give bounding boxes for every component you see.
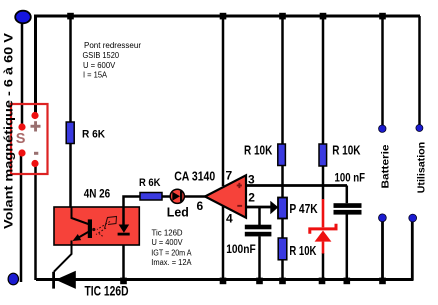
wire Batterie top (381, 16, 384, 128)
wire flywheel left terminal to ground node (20, 153, 23, 282)
optocoupler LED (118, 207, 130, 236)
wire capacitor C2 column (346, 186, 349, 281)
svg-text:Pont redresseur: Pont redresseur (84, 41, 141, 50)
svg-text:Batterie: Batterie (380, 144, 392, 188)
wire op-amp pin7 column (222, 16, 225, 186)
wire R6K column lower to optocoupler (69, 144, 72, 208)
resistor R 10K divider bottom (278, 238, 287, 260)
terminal Batterie top (379, 125, 386, 132)
wire op-amp pin4 column (222, 205, 225, 280)
wire Batterie bottom (381, 218, 384, 280)
svg-text:6: 6 (197, 199, 204, 213)
svg-text:TIC 126D: TIC 126D (85, 284, 129, 299)
potentiometer P 47K wiper arrow (270, 201, 278, 215)
zener diode wire red upper (322, 199, 325, 227)
terminal Utilisation bottom (409, 214, 417, 222)
zener diode (310, 224, 336, 242)
wire LED to op-amp pin6 (185, 195, 206, 198)
wire pin2 row (246, 206, 271, 209)
wire generator right terminal down (34, 163, 37, 280)
svg-text:U = 400V: U = 400V (152, 238, 184, 247)
label R 10K right (332, 144, 360, 158)
junction top rail x282 (279, 13, 286, 20)
zener diode wire red lower (322, 242, 325, 254)
thyristor TIC126D gate wire (54, 241, 72, 272)
wire Utilisation bottom (411, 218, 414, 280)
svg-text:4N 26: 4N 26 (84, 186, 111, 200)
svg-text:S: S (16, 131, 26, 147)
optocoupler 4N26 box (54, 207, 139, 245)
label 100 nF (335, 173, 366, 185)
svg-text:U = 600V: U = 600V (83, 61, 116, 70)
generator labels S + - (16, 121, 41, 155)
wire R6K column upper (69, 16, 72, 122)
wire flywheel left terminal from node (21, 22, 24, 127)
wire capacitor C1 drop (258, 207, 261, 280)
svg-text:100nF: 100nF (226, 244, 256, 256)
label 100nF (226, 244, 256, 256)
wire LED column into optocoupler (124, 197, 141, 280)
text Tic 126D spec block (151, 228, 192, 267)
op-amp U1 CA3140 (205, 175, 246, 217)
label CA 3140 (174, 170, 215, 184)
wire bottom rail (36, 278, 414, 281)
label Utilisation (416, 142, 428, 194)
label Led (167, 205, 189, 219)
pin 6 (197, 199, 204, 213)
svg-text:P 47K: P 47K (289, 202, 317, 216)
optocoupler light arrows (92, 217, 116, 237)
label R 10K bottom (289, 244, 316, 258)
svg-text:4: 4 (226, 211, 233, 225)
junction bottom rail x123 (120, 278, 127, 285)
capacitor C2 100nF (334, 203, 362, 214)
label R 6K horizontal (139, 177, 161, 189)
generator terminal dots (18, 112, 38, 167)
node ground (blue dot bottom-left) (8, 273, 18, 285)
text Pont redresseur block (83, 41, 142, 80)
svg-text:R 6K: R 6K (139, 177, 161, 189)
label Batterie (380, 144, 392, 188)
pin 2 (248, 191, 255, 205)
node phase output (blue ellipse top-left) (15, 11, 31, 24)
svg-text:Led: Led (167, 205, 189, 219)
junction bottom rail x322 (319, 278, 326, 285)
wire right edge (Utilisation top) (418, 16, 421, 127)
svg-text:R 10K: R 10K (332, 144, 360, 158)
svg-text:I = 15A: I = 15A (83, 70, 108, 79)
svg-text:GSIB 1520: GSIB 1520 (83, 51, 120, 60)
svg-text:Volant magnétique - 6 à 60 V: Volant magnétique - 6 à 60 V (2, 33, 16, 229)
optocoupler phototransistor (72, 207, 93, 241)
junction top rail x323 (320, 13, 327, 20)
svg-text:Tic 126D: Tic 126D (152, 228, 183, 237)
junction top rail x382 (379, 13, 386, 20)
svg-text:2: 2 (248, 191, 255, 205)
svg-text:Utilisation: Utilisation (416, 142, 428, 194)
svg-text:100 nF: 100 nF (335, 173, 366, 185)
svg-text:IGT = 20m A: IGT = 20m A (151, 248, 192, 257)
label 4N 26 (84, 186, 111, 200)
svg-text:CA 3140: CA 3140 (174, 170, 215, 184)
junction top rail x223 (220, 13, 227, 20)
svg-text:Imax. = 12A: Imax. = 12A (151, 258, 192, 267)
thyristor TIC126D (52, 271, 76, 289)
label P 47K (289, 202, 317, 216)
junction top rail x70 (67, 13, 74, 20)
wire divider column (281, 16, 284, 280)
svg-text:R 10K: R 10K (244, 144, 272, 158)
wire pin3 row (246, 184, 347, 187)
resistor R 10K zener column (319, 144, 327, 166)
svg-text:R 6K: R 6K (82, 129, 105, 141)
junction bottom rail x282 (279, 278, 286, 285)
label TIC 126D (85, 284, 129, 299)
resistor R 6K horizontal (140, 193, 162, 201)
capacitor C1 100nF (245, 225, 272, 237)
terminal Batterie bottom (379, 214, 387, 222)
pin 4 (226, 211, 233, 225)
potentiometer P 47K (278, 198, 287, 219)
resistor R 6K vertical (66, 122, 74, 144)
label Volant magnetique vertical (2, 33, 16, 229)
junction bottom rail x382 (379, 278, 386, 285)
junction bottom rail x346 (344, 278, 351, 285)
svg-text:7: 7 (226, 169, 233, 183)
junction bottom rail x259 (256, 278, 263, 285)
label R 10K left (244, 144, 272, 158)
svg-text:R 10K: R 10K (289, 244, 316, 258)
generator flywheel magneto box (11, 104, 48, 174)
junction bottom rail x223 (220, 278, 227, 285)
diode Led indicator (170, 189, 184, 203)
label R 6K (82, 129, 105, 141)
svg-text:3: 3 (248, 173, 255, 187)
wire zener column (322, 16, 325, 280)
pin 3 (248, 173, 255, 187)
wire R6K-h to LED (162, 195, 170, 198)
terminal Utilisation top (416, 125, 423, 132)
resistor R 10K divider top (278, 144, 286, 166)
pin 7 (226, 169, 233, 183)
wire top rail (36, 16, 421, 115)
